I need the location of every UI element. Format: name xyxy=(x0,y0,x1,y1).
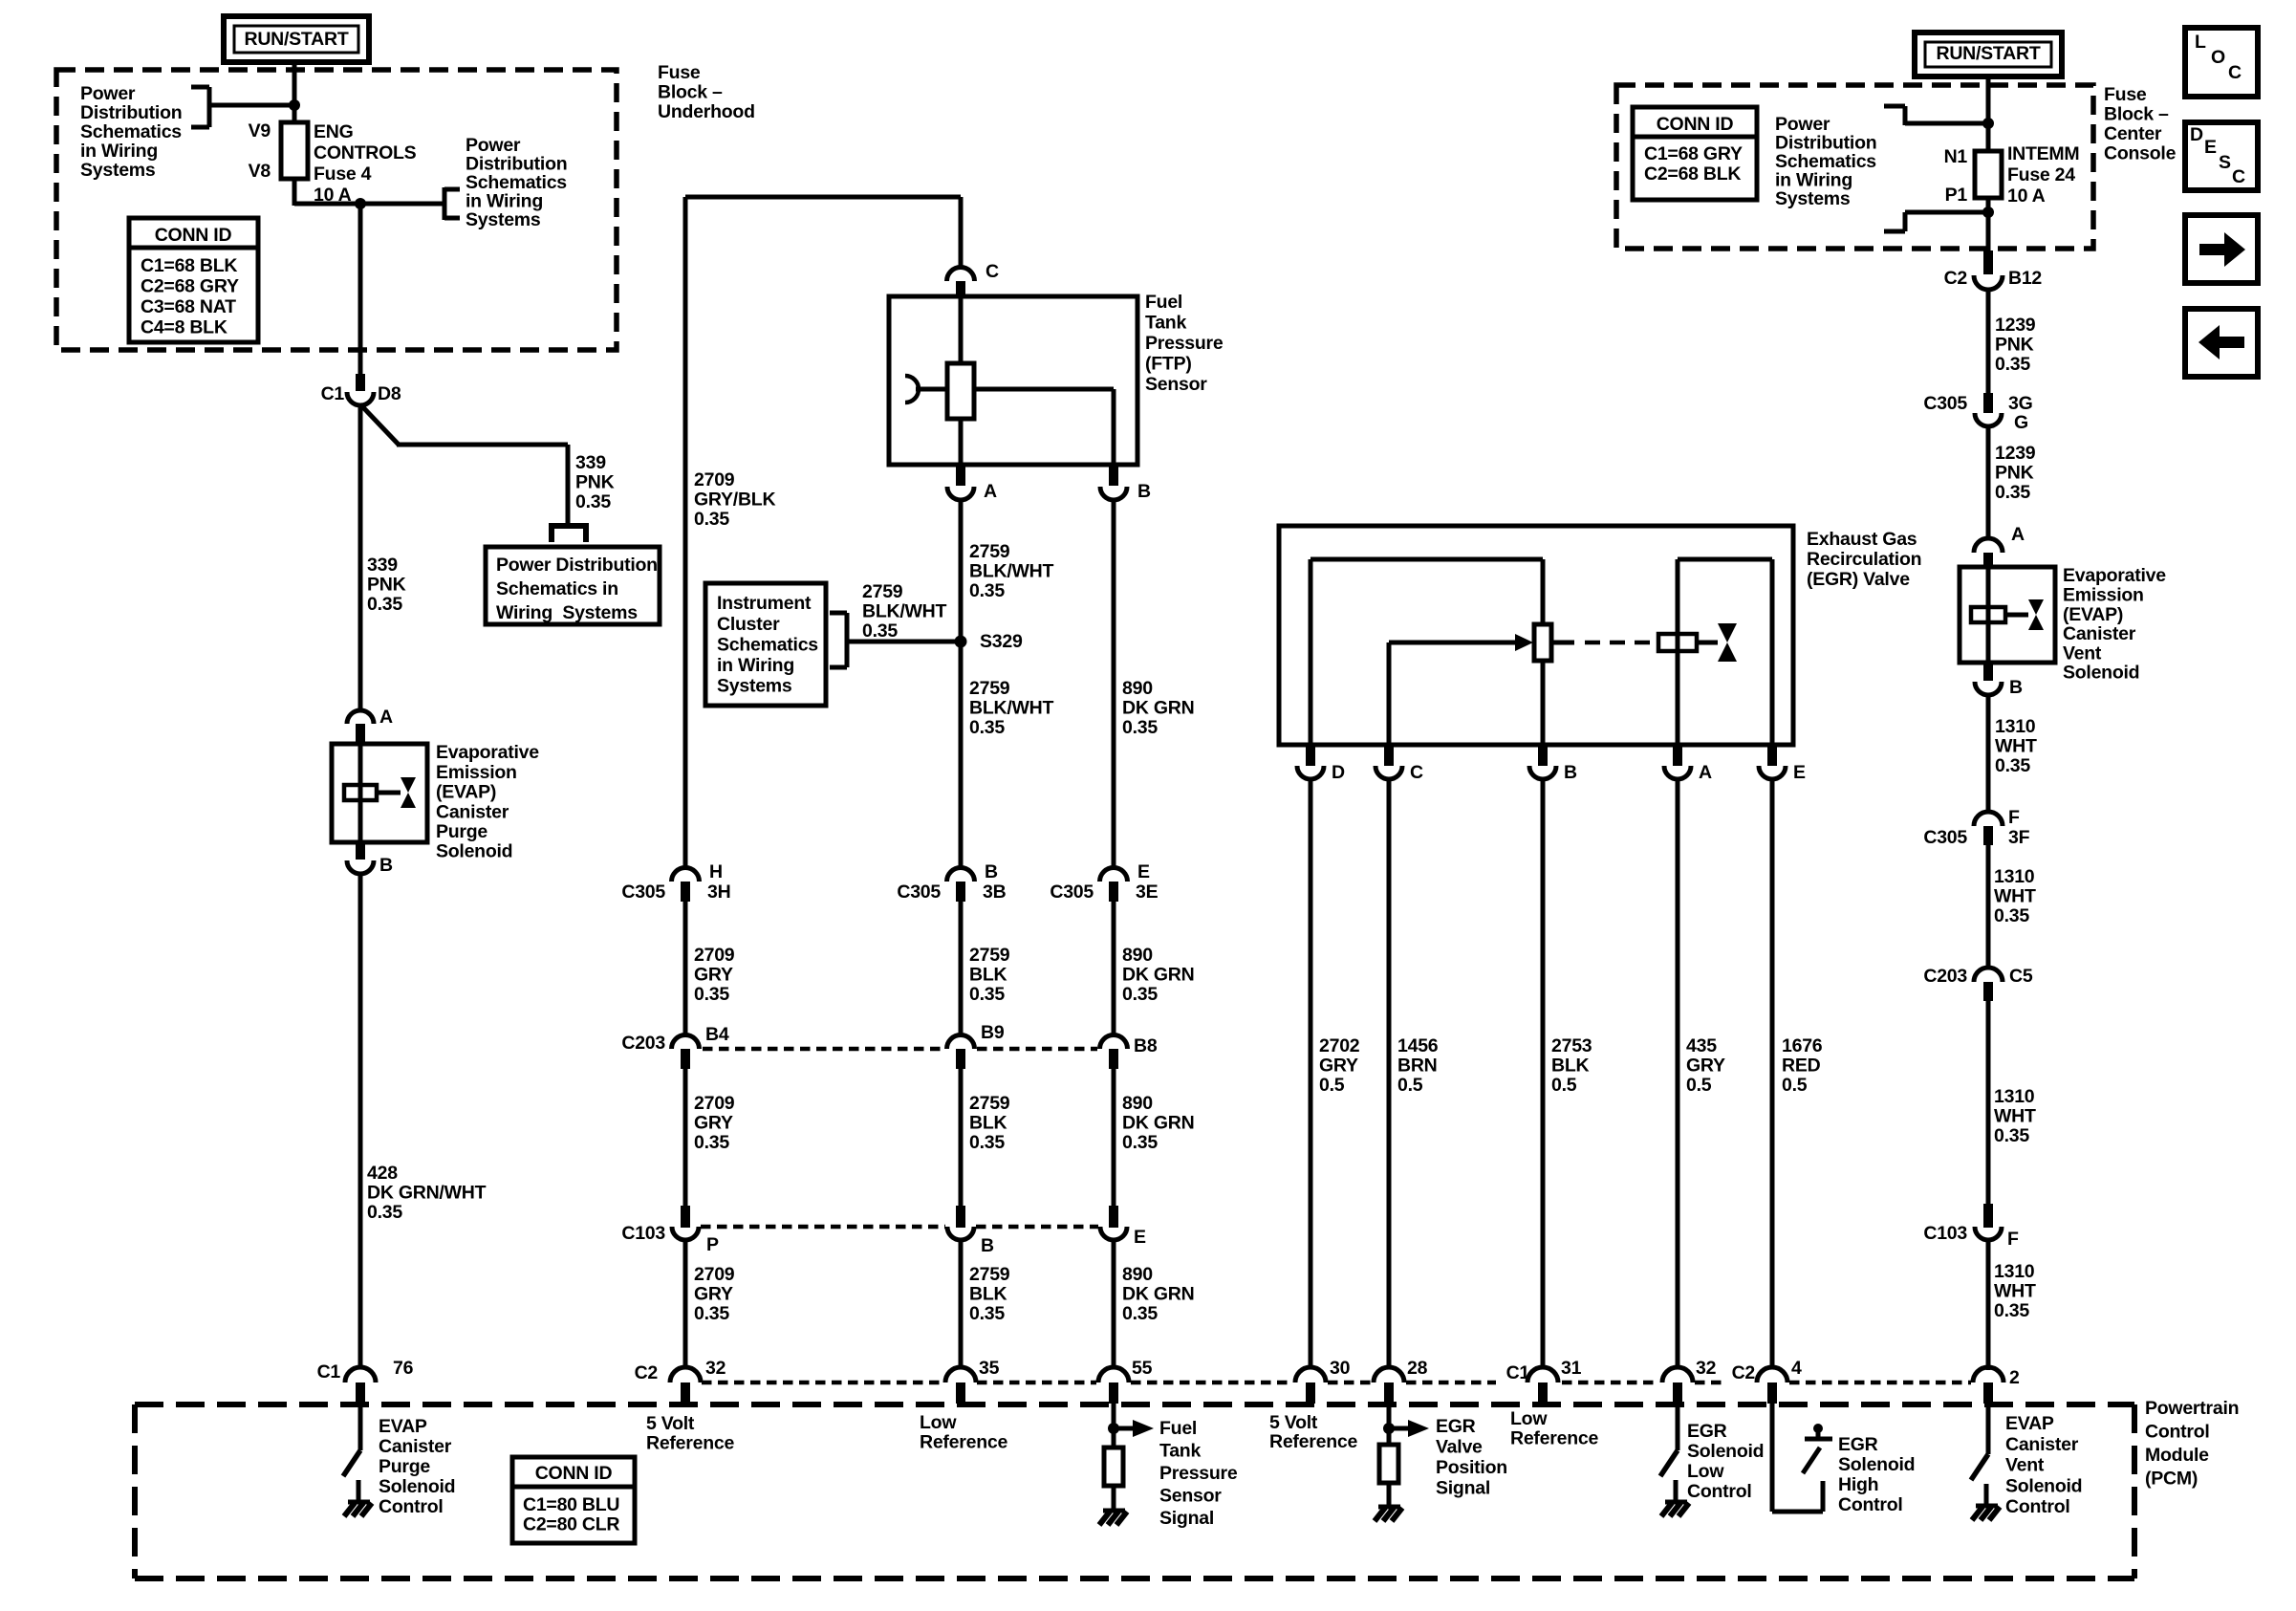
wire C305 3G to vent solenoid pin A xyxy=(1986,426,1991,539)
svg-text:Schematics: Schematics xyxy=(717,634,818,655)
connector C305 E/3E xyxy=(1100,868,1128,882)
svg-text:Control: Control xyxy=(1838,1494,1903,1515)
svg-text:DK GRN: DK GRN xyxy=(1122,1284,1194,1305)
svg-text:Emission: Emission xyxy=(436,762,517,783)
svg-text:Fuse: Fuse xyxy=(658,62,701,83)
wire purge solenoid to PCM pin 76 xyxy=(358,873,363,1368)
connector pin E EGR valve xyxy=(1767,745,1777,766)
svg-text:C2=80 CLR: C2=80 CLR xyxy=(523,1514,619,1535)
svg-text:0.35: 0.35 xyxy=(862,620,898,642)
PCM pin row dash line 28-31 xyxy=(1406,1381,1496,1385)
wire col2 C305 to C203 xyxy=(683,902,688,1036)
svg-text:GRY: GRY xyxy=(694,1113,733,1134)
bracket from instrument cluster box xyxy=(830,611,847,616)
instrument cluster schematics box xyxy=(705,583,826,706)
purge solenoid coil xyxy=(344,785,377,800)
connector pin B EGR valve xyxy=(1538,745,1548,766)
connector C305 H/3H xyxy=(672,868,700,882)
fuse F1 ENG CONTROLS Fuse 4 10A xyxy=(281,122,308,179)
svg-text:C103: C103 xyxy=(1923,1223,1967,1244)
PCM internal resistor (EGR position) xyxy=(1379,1445,1398,1483)
svg-text:C203: C203 xyxy=(621,1033,665,1054)
EGR wiper arrowhead xyxy=(1515,634,1533,651)
svg-text:D: D xyxy=(2190,124,2203,145)
ground (EGR low control) xyxy=(1665,1500,1687,1505)
wire through vent solenoid xyxy=(1986,567,1991,663)
svg-text:890: 890 xyxy=(1122,945,1153,966)
svg-text:76: 76 xyxy=(393,1358,414,1379)
powertrain control module PCM dashed box xyxy=(135,1402,2134,1407)
connector pin C EGR valve xyxy=(1384,745,1394,766)
svg-text:Valve: Valve xyxy=(1436,1437,1483,1458)
EGR solenoid coil xyxy=(1658,634,1697,651)
EGR internal wire pin C wiper xyxy=(1387,642,1392,745)
svg-text:Purge: Purge xyxy=(436,821,487,842)
svg-text:BLK/WHT: BLK/WHT xyxy=(969,698,1053,719)
purge solenoid valve line xyxy=(377,791,401,795)
bracket to power distribution text xyxy=(191,85,209,90)
connector PCM pin 32 (C2) xyxy=(670,1367,701,1382)
svg-text:Position: Position xyxy=(1436,1457,1507,1478)
ground (EGR position) xyxy=(1378,1505,1400,1510)
connector PCM pin 31 (C1) xyxy=(1527,1367,1558,1382)
junction node right feed xyxy=(1982,118,1994,129)
svg-text:Power Distribution: Power Distribution xyxy=(496,555,658,576)
wire C203 C5 to C103 F xyxy=(1986,1001,1991,1206)
svg-text:C305: C305 xyxy=(1923,827,1967,848)
svg-text:C1: C1 xyxy=(1506,1362,1530,1383)
svg-text:A: A xyxy=(1699,762,1712,783)
svg-text:B4: B4 xyxy=(705,1024,729,1045)
power feed box RUN/START (right) xyxy=(1915,33,2062,76)
svg-text:0.35: 0.35 xyxy=(1122,984,1158,1005)
svg-text:Block –: Block – xyxy=(658,82,723,103)
svg-text:0.35: 0.35 xyxy=(694,1132,729,1153)
wire lower bracket to fuse output xyxy=(1905,210,1988,215)
svg-text:P: P xyxy=(706,1234,719,1255)
wire FTP right branch down to pin B xyxy=(1112,389,1116,465)
PCM pin row dash line 30-28 xyxy=(1328,1381,1372,1385)
junction node fuse output xyxy=(355,198,366,209)
svg-text:Fuse: Fuse xyxy=(2104,84,2147,105)
svg-text:28: 28 xyxy=(1407,1358,1428,1379)
svg-text:DK GRN: DK GRN xyxy=(1122,965,1194,986)
svg-text:0.35: 0.35 xyxy=(969,1132,1005,1153)
svg-text:Instrument: Instrument xyxy=(717,593,812,614)
wire below right fuse xyxy=(1986,198,1991,250)
wire FTP internal from pin C to element xyxy=(959,296,964,363)
svg-text:Low: Low xyxy=(1687,1461,1724,1482)
wire col4 C103 to PCM pin 55 xyxy=(1112,1240,1116,1368)
ground (vent control driver) xyxy=(1976,1504,1998,1509)
fuse F24 INTEMM Fuse 24 10A xyxy=(1975,151,2002,198)
svg-text:Fuse 4: Fuse 4 xyxy=(314,163,372,185)
ground (FTP signal) xyxy=(1103,1509,1125,1513)
svg-text:C1=80 BLU: C1=80 BLU xyxy=(523,1494,619,1515)
connector pin B vent solenoid xyxy=(1983,663,1993,681)
svg-text:Reference: Reference xyxy=(1510,1428,1598,1449)
ground (purge control driver) xyxy=(348,1500,370,1505)
svg-text:2709: 2709 xyxy=(694,945,735,966)
svg-text:CONN ID: CONN ID xyxy=(535,1463,613,1484)
arrow FTP signal xyxy=(1114,1426,1133,1431)
wire EGR D to PCM pin 30 xyxy=(1309,779,1313,1368)
svg-text:Low: Low xyxy=(1510,1408,1548,1429)
bracket upper to power distribution xyxy=(1884,104,1905,109)
connector C103 B xyxy=(956,1206,965,1228)
EGR internal wire element to pin B xyxy=(1541,661,1546,745)
connector C203 B4 xyxy=(672,1035,700,1050)
wire pin 28 into PCM xyxy=(1387,1404,1392,1445)
wire EGR E to PCM pin 4 xyxy=(1770,779,1775,1368)
svg-text:B8: B8 xyxy=(1134,1035,1158,1056)
svg-text:C: C xyxy=(2232,166,2245,187)
svg-text:Signal: Signal xyxy=(1159,1508,1214,1529)
svg-text:Control: Control xyxy=(2005,1496,2070,1517)
harness dash line C203 B9-B8 xyxy=(977,1047,1097,1052)
connector C203 C5 xyxy=(1974,968,2003,982)
svg-text:2709: 2709 xyxy=(694,469,735,490)
svg-text:Powertrain: Powertrain xyxy=(2145,1398,2239,1419)
svg-text:BLK/WHT: BLK/WHT xyxy=(862,601,946,622)
connector PCM pin 28 xyxy=(1374,1367,1404,1382)
svg-text:2753: 2753 xyxy=(1551,1035,1592,1056)
svg-text:Control: Control xyxy=(2145,1422,2210,1443)
svg-text:1310: 1310 xyxy=(1994,1086,2035,1107)
connector pin A FTP sensor xyxy=(956,465,965,486)
bracket to power distribution text 2 xyxy=(444,187,460,192)
connector PCM pin 2 xyxy=(1973,1367,2004,1382)
svg-text:0.35: 0.35 xyxy=(969,580,1005,601)
svg-text:F: F xyxy=(2008,807,2020,828)
svg-text:C5: C5 xyxy=(2009,966,2033,987)
svg-text:Canister: Canister xyxy=(2063,623,2136,644)
svg-text:1676: 1676 xyxy=(1782,1035,1823,1056)
wire col4 C305 to C203 xyxy=(1112,902,1116,1036)
svg-text:Sensor: Sensor xyxy=(1145,374,1207,395)
svg-text:PNK: PNK xyxy=(1995,335,2034,356)
svg-text:C2: C2 xyxy=(1732,1362,1756,1383)
wire top horizontal 5 volt reference net xyxy=(685,195,961,200)
svg-text:0.35: 0.35 xyxy=(694,984,729,1005)
svg-text:Vent: Vent xyxy=(2005,1455,2045,1476)
svg-text:Center: Center xyxy=(2104,123,2162,144)
svg-text:2702: 2702 xyxy=(1319,1035,1360,1056)
junction node right fuse output xyxy=(1982,207,1994,218)
splice S329 xyxy=(955,636,967,648)
PCM pin row dash line 32-35 xyxy=(702,1381,943,1385)
svg-text:CONN ID: CONN ID xyxy=(155,225,232,246)
svg-text:Block –: Block – xyxy=(2104,104,2169,125)
svg-text:2: 2 xyxy=(2009,1367,2020,1388)
svg-text:1310: 1310 xyxy=(1994,866,2035,887)
harness dash line C103 B-E xyxy=(976,1225,1098,1230)
wire C1 D8 down to purge solenoid xyxy=(358,404,363,711)
svg-text:H: H xyxy=(709,861,723,882)
EGR internal wire pin A through coil xyxy=(1676,559,1680,745)
svg-text:S329: S329 xyxy=(980,631,1023,652)
DESC legend box xyxy=(2185,122,2258,190)
svg-text:WHT: WHT xyxy=(1995,736,2037,757)
junction node EGR position signal xyxy=(1383,1423,1395,1434)
svg-text:Sensor: Sensor xyxy=(1159,1486,1222,1507)
wire EGR B to PCM pin 31 xyxy=(1541,779,1546,1368)
svg-text:Exhaust Gas: Exhaust Gas xyxy=(1807,529,1917,550)
svg-text:B9: B9 xyxy=(981,1022,1005,1043)
svg-text:GRY: GRY xyxy=(1319,1056,1358,1077)
svg-text:DK GRN: DK GRN xyxy=(1122,698,1194,719)
svg-text:0.35: 0.35 xyxy=(1994,905,2029,926)
svg-text:V8: V8 xyxy=(249,161,271,182)
harness dash line C103 P-B xyxy=(701,1225,945,1230)
svg-text:CONN ID: CONN ID xyxy=(1657,114,1734,135)
svg-text:DK GRN: DK GRN xyxy=(1122,1113,1194,1134)
wire col3 down to FTP sensor pin C xyxy=(959,197,964,269)
vent solenoid valve line xyxy=(2005,613,2028,618)
svg-text:GRY/BLK: GRY/BLK xyxy=(694,490,775,511)
svg-text:EGR: EGR xyxy=(1838,1434,1878,1455)
svg-text:BLK: BLK xyxy=(969,965,1007,986)
EVAP canister purge solenoid box xyxy=(332,744,427,842)
connector PCM pin 76 (C1) xyxy=(345,1367,376,1382)
svg-text:Recirculation: Recirculation xyxy=(1807,549,1921,570)
svg-text:Emission: Emission xyxy=(2063,585,2144,606)
svg-text:Solenoid: Solenoid xyxy=(1838,1454,1915,1475)
svg-text:S: S xyxy=(2219,152,2231,173)
wire fuse output down to C1 D8 xyxy=(358,204,363,376)
back arrow box xyxy=(2185,309,2258,377)
svg-text:DK GRN/WHT: DK GRN/WHT xyxy=(367,1183,487,1204)
fuse block underhood dashed box xyxy=(56,70,617,350)
svg-text:Solenoid: Solenoid xyxy=(2063,663,2139,684)
svg-text:B12: B12 xyxy=(2008,268,2042,289)
svg-text:WHT: WHT xyxy=(1994,1106,2036,1127)
CONN ID table (center console) xyxy=(1633,107,1757,200)
EGR internal dashed link xyxy=(1551,641,1574,645)
svg-text:Reference: Reference xyxy=(1269,1431,1357,1452)
svg-text:Control: Control xyxy=(1687,1481,1752,1502)
wire resistor to ground xyxy=(1112,1486,1116,1511)
wire FTP pin A down (2759 BLK/WHT) xyxy=(959,500,964,869)
svg-text:0.35: 0.35 xyxy=(1995,755,2030,776)
wire FTP element right branch xyxy=(974,387,1114,392)
EGR internal wire top loop to pin E xyxy=(1678,557,1772,562)
svg-text:Control: Control xyxy=(379,1496,444,1517)
wire pin 55 into PCM xyxy=(1112,1404,1116,1448)
svg-text:BLK: BLK xyxy=(969,1113,1007,1134)
svg-text:BLK/WHT: BLK/WHT xyxy=(969,561,1053,582)
svg-text:C2: C2 xyxy=(1944,268,1968,289)
svg-text:0.5: 0.5 xyxy=(1319,1075,1345,1096)
svg-text:Fuse 24: Fuse 24 xyxy=(2007,164,2075,185)
svg-text:32: 32 xyxy=(1696,1358,1717,1379)
svg-text:0.35: 0.35 xyxy=(1995,482,2030,503)
svg-text:Solenoid: Solenoid xyxy=(2005,1475,2082,1496)
svg-text:Canister: Canister xyxy=(2005,1434,2079,1455)
svg-text:Reference: Reference xyxy=(920,1432,1007,1453)
svg-text:B: B xyxy=(985,861,998,882)
svg-text:0.35: 0.35 xyxy=(1994,1300,2029,1321)
svg-text:Cluster: Cluster xyxy=(717,614,780,635)
svg-text:2759: 2759 xyxy=(969,945,1010,966)
svg-text:GRY: GRY xyxy=(694,1284,733,1305)
svg-text:Canister: Canister xyxy=(379,1436,452,1457)
PCM EGR solenoid low control driver xyxy=(1676,1404,1680,1450)
svg-text:3H: 3H xyxy=(707,882,730,903)
svg-text:Low: Low xyxy=(920,1412,957,1433)
svg-text:(EVAP): (EVAP) xyxy=(436,782,496,803)
svg-text:3G: 3G xyxy=(2008,393,2033,414)
svg-text:B: B xyxy=(1564,762,1577,783)
PCM EVAP purge solenoid control driver xyxy=(358,1404,363,1450)
wire RUN/START down to fuse xyxy=(292,62,297,122)
LOC legend box xyxy=(2185,28,2258,97)
svg-text:C: C xyxy=(2228,62,2242,83)
harness dash line C203 B4-B9 xyxy=(703,1047,944,1052)
svg-text:890: 890 xyxy=(1122,1264,1153,1285)
connector PCM pin 35 xyxy=(945,1367,976,1382)
svg-text:2709: 2709 xyxy=(694,1093,735,1114)
PCM pin row dash line 32-4 xyxy=(1695,1381,1726,1385)
svg-text:5 Volt: 5 Volt xyxy=(646,1413,695,1434)
connector pin A vent solenoid xyxy=(1974,538,2003,553)
wire col3 C203 to C103 xyxy=(959,1069,964,1206)
EGR valve symbol xyxy=(1718,623,1737,642)
svg-text:Fuel: Fuel xyxy=(1159,1418,1197,1439)
svg-text:Canister: Canister xyxy=(436,801,509,822)
wire col3 C305 to C203 xyxy=(959,902,964,1036)
connector C305 F 3F xyxy=(1974,812,2003,826)
wire down to schematic bracket xyxy=(566,445,571,526)
junction node on feed wire xyxy=(289,99,300,111)
svg-text:WHT: WHT xyxy=(1994,1281,2036,1302)
svg-text:Reference: Reference xyxy=(646,1433,734,1454)
svg-text:A: A xyxy=(984,481,997,502)
svg-text:Systems: Systems xyxy=(1775,188,1851,209)
svg-text:Systems: Systems xyxy=(466,209,541,230)
svg-text:Schematics: Schematics xyxy=(80,121,182,142)
FTP pickup arc xyxy=(905,376,919,403)
svg-text:Tank: Tank xyxy=(1159,1441,1201,1462)
svg-text:C103: C103 xyxy=(621,1223,665,1244)
svg-text:BLK: BLK xyxy=(1551,1056,1589,1077)
svg-text:B: B xyxy=(379,855,393,876)
svg-text:V9: V9 xyxy=(249,120,271,142)
svg-text:35: 35 xyxy=(979,1358,1000,1379)
connector C103 P xyxy=(681,1206,690,1228)
connector C103 F xyxy=(1983,1204,1993,1228)
svg-text:0.35: 0.35 xyxy=(694,1303,729,1324)
wire RUN/START right down to fuse xyxy=(1986,76,1991,151)
svg-text:ENG: ENG xyxy=(314,121,354,142)
boxed ref power distribution schematics in wiring systems xyxy=(486,547,660,624)
svg-text:(EVAP): (EVAP) xyxy=(2063,604,2123,625)
svg-text:EGR: EGR xyxy=(1436,1416,1476,1437)
svg-text:2759: 2759 xyxy=(969,541,1010,562)
svg-text:Pressure: Pressure xyxy=(1145,333,1224,354)
wire diagonal from C1 D8 to power distribution ref xyxy=(360,404,399,445)
svg-text:PNK: PNK xyxy=(1995,463,2034,484)
svg-text:A: A xyxy=(2011,524,2025,545)
wire FTP element to pin A xyxy=(959,419,964,465)
svg-text:1239: 1239 xyxy=(1995,315,2036,336)
vent solenoid coil xyxy=(1971,607,2005,622)
svg-text:2759: 2759 xyxy=(969,678,1010,699)
svg-text:0.35: 0.35 xyxy=(969,1303,1005,1324)
PCM pin row dash line 55-30 xyxy=(1131,1381,1293,1385)
PCM pin row dash line 31-32 xyxy=(1562,1381,1659,1385)
svg-text:(PCM): (PCM) xyxy=(2145,1469,2198,1490)
svg-text:Systems: Systems xyxy=(80,160,156,181)
svg-text:G: G xyxy=(2014,412,2028,433)
svg-text:0.35: 0.35 xyxy=(969,717,1005,738)
svg-text:C2=68 GRY: C2=68 GRY xyxy=(141,276,239,297)
svg-text:428: 428 xyxy=(367,1163,398,1184)
svg-text:C3=68 NAT: C3=68 NAT xyxy=(141,296,236,317)
PCM EVAP vent solenoid control driver xyxy=(1986,1404,1991,1454)
svg-text:D8: D8 xyxy=(378,383,401,404)
svg-text:C2=68 BLK: C2=68 BLK xyxy=(1644,163,1741,185)
svg-text:GRY: GRY xyxy=(694,965,733,986)
power feed box RUN/START (left) xyxy=(224,16,369,62)
svg-text:C1: C1 xyxy=(317,1361,341,1382)
EGR valve symbol link xyxy=(1697,641,1718,645)
svg-text:E: E xyxy=(1137,861,1150,882)
svg-text:Fuel: Fuel xyxy=(1145,292,1182,313)
svg-text:1310: 1310 xyxy=(1995,716,2036,737)
svg-text:E: E xyxy=(1134,1227,1146,1248)
svg-text:2759: 2759 xyxy=(969,1264,1010,1285)
connector C305 3G G xyxy=(1983,393,1993,413)
svg-text:1310: 1310 xyxy=(1994,1261,2035,1282)
svg-text:C305: C305 xyxy=(897,882,941,903)
purge solenoid valve symbol xyxy=(401,777,416,793)
svg-text:1456: 1456 xyxy=(1397,1035,1439,1056)
connector pin A EGR valve xyxy=(1673,745,1682,766)
connector C305 B/3B xyxy=(947,868,975,882)
connector C1 D8 xyxy=(356,374,365,391)
svg-text:B: B xyxy=(1137,481,1151,502)
svg-text:890: 890 xyxy=(1122,678,1153,699)
svg-text:3B: 3B xyxy=(983,882,1007,903)
wire FTP pin B down (890 DK GRN) xyxy=(1112,500,1116,869)
svg-text:2709: 2709 xyxy=(694,1264,735,1285)
svg-text:435: 435 xyxy=(1686,1035,1717,1056)
connector C103 E xyxy=(1109,1206,1118,1228)
connector PCM pin 4 (C2) xyxy=(1757,1367,1787,1382)
svg-text:5 Volt: 5 Volt xyxy=(1269,1412,1318,1433)
wire below fuse xyxy=(292,179,297,206)
svg-text:0.5: 0.5 xyxy=(1686,1075,1712,1096)
wire bracket to fuse feed xyxy=(209,103,294,108)
connector pin C FTP sensor xyxy=(947,268,975,282)
svg-text:0.5: 0.5 xyxy=(1397,1075,1423,1096)
svg-text:Purge: Purge xyxy=(379,1456,430,1477)
svg-text:RUN/START: RUN/START xyxy=(245,29,349,50)
svg-text:31: 31 xyxy=(1561,1358,1582,1379)
svg-text:Signal: Signal xyxy=(1436,1478,1490,1499)
wire upper bracket to fuse feed xyxy=(1905,121,1988,126)
FTP pickup lead xyxy=(916,387,947,392)
svg-text:0.35: 0.35 xyxy=(1122,1132,1158,1153)
vent solenoid valve symbol xyxy=(2028,599,2044,615)
bracket into power distribution box xyxy=(549,524,554,542)
fuse block center console dashed box xyxy=(1616,85,2093,249)
svg-text:INTEMM: INTEMM xyxy=(2007,143,2079,164)
svg-text:CONTROLS: CONTROLS xyxy=(314,142,417,163)
svg-text:High: High xyxy=(1838,1474,1878,1495)
svg-text:339: 339 xyxy=(575,452,606,473)
